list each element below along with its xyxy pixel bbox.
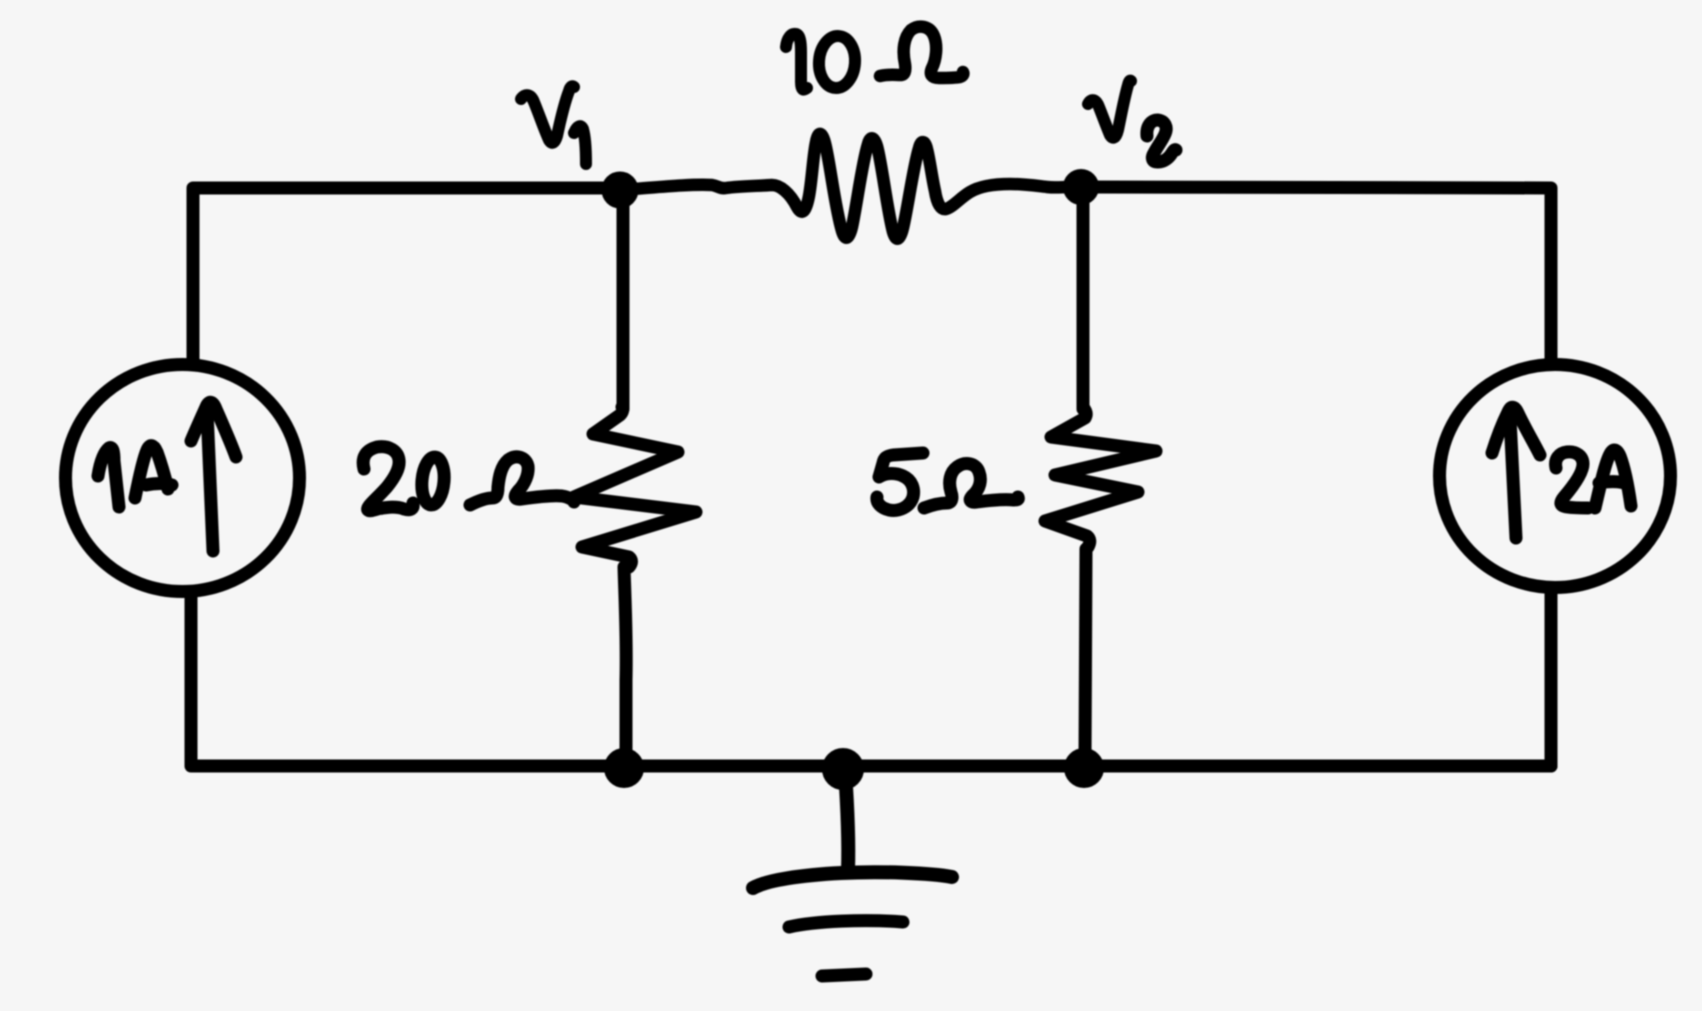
wire top-left rail from left source to node V1 <box>193 188 622 362</box>
resistor R1 10 ohm between V1 and V2 <box>633 134 1069 239</box>
junction dot R3 at bottom rail <box>1070 754 1098 782</box>
resistor R2 20 ohm vertical <box>574 407 696 567</box>
current source I2 2A circle <box>1440 365 1671 588</box>
wire right source bottom to bottom rail <box>1545 588 1558 766</box>
junction dot ground at bottom rail <box>828 754 858 784</box>
node V1 junction dot <box>607 177 633 203</box>
label R1 value 10 ohm <box>786 34 807 90</box>
wire R2 bottom to bottom rail <box>624 567 626 760</box>
junction dot R2 at bottom rail <box>610 754 638 782</box>
wire V2 stem down to R3 <box>1077 193 1090 409</box>
label R2 value 20 ohm <box>363 447 413 511</box>
ground symbol bar 1 <box>753 872 952 888</box>
wire V1 stem down to R2 <box>617 195 630 409</box>
current source I2 arrow <box>1510 418 1516 538</box>
node V2 junction dot <box>1068 174 1094 200</box>
current source I1 1A circle <box>66 365 300 592</box>
ground symbol bar 3 <box>822 974 866 976</box>
wire R3 bottom to bottom rail <box>1085 549 1086 760</box>
current source I1 arrow <box>207 410 213 551</box>
label V1 <box>521 86 574 143</box>
wire left source bottom to bottom rail <box>185 592 198 766</box>
label 1A value <box>98 448 119 507</box>
wire top-right rail from node V2 to right source <box>1081 187 1551 359</box>
resistor R3 5 ohm vertical <box>1045 407 1156 547</box>
label 2A value <box>1556 452 1588 508</box>
label R3 value 5 ohm <box>877 453 923 510</box>
label V2 <box>1088 81 1131 138</box>
ground symbol bar 2 <box>789 921 903 927</box>
wire ground stub <box>845 771 848 870</box>
wire bottom rail <box>193 760 1551 773</box>
